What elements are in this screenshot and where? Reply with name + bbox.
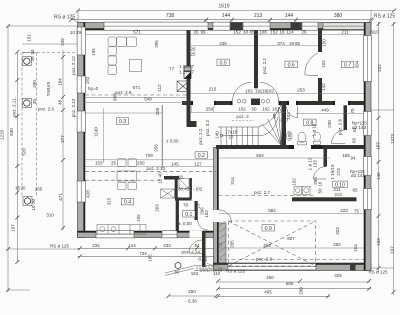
svg-text:poz. 2.6: poz. 2.6 (38, 107, 55, 112)
room label 0.8 (304, 119, 317, 125)
room label 0.3 (116, 118, 129, 124)
svg-text:197: 197 (11, 224, 16, 232)
window left 3 (77, 111, 85, 132)
svg-text:85: 85 (249, 29, 255, 34)
svg-text:685: 685 (286, 281, 294, 286)
svg-text:114: 114 (286, 29, 294, 34)
svg-text:1 ø 19: 1 ø 19 (312, 123, 317, 136)
svg-text:315: 315 (107, 197, 112, 205)
svg-text:520: 520 (22, 148, 27, 156)
svg-text:250: 250 (137, 161, 145, 166)
poz 2.9 dashed (85, 94, 187, 96)
svg-text:193: 193 (376, 238, 381, 246)
svg-text:310: 310 (46, 213, 54, 218)
poz 2.8 dashed (219, 259, 365, 261)
svg-text:162: 162 (191, 271, 199, 276)
svg-text:195: 195 (91, 48, 96, 56)
window top 2 (213, 22, 230, 30)
svg-text:250: 250 (206, 106, 214, 111)
svg-text:223: 223 (340, 208, 348, 213)
door jambs (191, 101, 350, 149)
window right 2 (364, 112, 372, 136)
window left 1 (77, 27, 85, 55)
svg-text:213: 213 (254, 13, 263, 19)
bottom 450/325 line (218, 281, 371, 283)
svg-text:108: 108 (287, 132, 292, 140)
svg-text:48: 48 (58, 99, 63, 105)
wall south of bedrooms (182, 101, 364, 105)
interior walls (164, 30, 364, 267)
door arc hall/garage (219, 210, 232, 223)
living dim line (84, 97, 186, 99)
svg-text:146: 146 (376, 172, 381, 180)
svg-text:1619: 1619 (218, 3, 229, 9)
svg-text:poz. 2.10: poz. 2.10 (147, 166, 166, 171)
svg-text:471: 471 (58, 193, 63, 201)
svg-text:450: 450 (266, 275, 274, 280)
svg-text:205: 205 (154, 40, 159, 48)
svg-text:poz. 2.8: poz. 2.8 (256, 256, 273, 261)
svg-text:144: 144 (222, 13, 231, 19)
svg-text:150: 150 (155, 107, 160, 115)
svg-text:230: 230 (327, 120, 332, 128)
entry porch column (175, 263, 181, 269)
wall stairs/bath (282, 101, 287, 149)
svg-text:532: 532 (377, 64, 382, 72)
svg-text:152: 152 (270, 29, 278, 34)
poz 2.7 dashed (219, 195, 317, 197)
bottom 465 line (218, 295, 330, 297)
svg-text:145: 145 (171, 162, 179, 167)
svg-text:poz. 2.9.: poz. 2.9. (115, 90, 132, 95)
svg-text:75: 75 (354, 208, 360, 213)
right inner dim line (378, 22, 380, 272)
ext t4 (295, 20, 297, 23)
svg-text:549: 549 (144, 97, 152, 102)
room label 0.1 (183, 211, 196, 217)
wall 0.10 left (324, 149, 328, 167)
svg-text:323: 323 (335, 227, 340, 235)
svg-text:162: 162 (262, 107, 270, 112)
svg-text:poz. 2.1: poz. 2.1 (262, 57, 267, 74)
window right 3 (364, 157, 372, 176)
svg-text:807: 807 (287, 236, 295, 241)
nook wall (175, 180, 178, 199)
room label 0.9 (262, 225, 275, 231)
svg-text:144: 144 (285, 13, 294, 19)
RS leader line (207, 264, 226, 270)
opening extension lines (192, 106, 214, 112)
svg-text:12 40: 12 40 (158, 172, 163, 184)
small bath jog wall (175, 198, 192, 201)
svg-text:10: 10 (374, 30, 380, 35)
room label 0.2 (195, 152, 208, 158)
garage bottom exterior wall (214, 263, 372, 271)
svg-text:394: 394 (354, 60, 359, 68)
svg-text:30: 30 (20, 185, 26, 190)
room 0.1 left wall (176, 200, 179, 231)
svg-text:30: 30 (31, 199, 36, 205)
bottom 685 line (218, 288, 371, 290)
left inner dim line (16, 52, 18, 262)
window living long top (104, 22, 208, 30)
kitchen counter (97, 225, 146, 235)
svg-text:449: 449 (321, 108, 329, 113)
svg-text:16: 16 (318, 181, 323, 187)
top exterior wall (78, 23, 371, 30)
svg-text:197: 197 (390, 246, 395, 254)
svg-text:127: 127 (194, 162, 202, 167)
inner face line top wall (85, 29, 364, 31)
svg-text:poz. 3: poz. 3 (236, 114, 249, 119)
svg-text:- 0,36: - 0,36 (185, 298, 197, 303)
svg-text:102: 102 (266, 89, 274, 94)
svg-text:830: 830 (9, 128, 14, 136)
svg-text:142: 142 (321, 83, 326, 91)
dark pier blocks top wall (231, 22, 302, 29)
room label 0.6 (285, 61, 298, 67)
svg-text:734: 734 (139, 251, 147, 256)
left third dim line (62, 50, 64, 230)
fireplace square (177, 81, 189, 92)
extension top-right (370, 11, 372, 23)
svg-text:RS ø 125: RS ø 125 (50, 243, 70, 248)
threshold symbols (237, 100, 241, 104)
chimney box1 (184, 66, 191, 71)
svg-text:RS ø 125: RS ø 125 (374, 14, 395, 20)
RS corner leader top-left (72, 19, 78, 23)
room 0.1 right wall (195, 201, 198, 220)
wall living/0.5 (187, 30, 191, 121)
svg-text:150: 150 (322, 39, 327, 47)
svg-text:18: 18 (272, 107, 278, 112)
svg-text:10: 10 (70, 30, 76, 35)
terrace columns (22, 57, 31, 66)
svg-text:30,43: 30,43 (178, 187, 190, 192)
chimney box2 half-black (184, 72, 191, 79)
svg-text:191: 191 (27, 34, 32, 42)
svg-text:-0,02: -0,02 (197, 257, 208, 262)
svg-text:10: 10 (31, 205, 36, 211)
door gaps (190, 101, 349, 238)
svg-text:poz. 2.6: poz. 2.6 (338, 118, 343, 135)
svg-text:85: 85 (295, 41, 301, 46)
svg-text:0.1: 0.1 (185, 212, 192, 218)
wall 0.5/0.6 (254, 30, 258, 88)
window left 4 (77, 181, 85, 202)
walk line (222, 117, 278, 136)
window right 1 (364, 36, 372, 82)
staircase (218, 104, 284, 146)
svg-text:184: 184 (58, 78, 63, 86)
interior dim lines (84, 35, 364, 249)
vestibule right wall (202, 231, 206, 267)
window kitchen bottom (96, 231, 134, 238)
svg-text:0.5: 0.5 (220, 60, 227, 66)
dim line top total 1619 (78, 10, 394, 12)
svg-text:10: 10 (30, 49, 35, 55)
RS corner leader top-right (371, 19, 375, 23)
svg-text:18: 18 (243, 29, 249, 34)
svg-text:ø2 143: ø2 143 (352, 125, 367, 130)
garage door opening (228, 264, 316, 270)
door arc 0.6/0.7 (305, 53, 318, 76)
svg-text:70: 70 (350, 108, 355, 114)
svg-text:ø2 143: ø2 143 (351, 173, 366, 178)
svg-text:465: 465 (264, 289, 272, 294)
light wall section 0.7 north (323, 23, 364, 30)
svg-text:205: 205 (230, 240, 235, 248)
svg-text:50: 50 (251, 107, 257, 112)
door arc bath-hall (287, 106, 298, 118)
door arc room 0.1 (198, 220, 208, 230)
wall living foot (187, 121, 197, 127)
svg-text:152: 152 (233, 29, 241, 34)
svg-text:144: 144 (128, 243, 136, 248)
svg-text:140: 140 (215, 131, 220, 139)
right ext b (371, 267, 394, 269)
svg-text:RS ø 125: RS ø 125 (369, 270, 389, 275)
furniture (97, 37, 321, 234)
svg-text:50: 50 (318, 188, 323, 194)
svg-text:poz. 2.12: poz. 2.12 (71, 56, 76, 75)
svg-text:30: 30 (30, 56, 35, 62)
left ext c (22, 43, 78, 45)
left ext d (22, 52, 36, 54)
svg-text:94: 94 (194, 243, 200, 248)
svg-text:108: 108 (259, 29, 267, 34)
door arc 0.5 (233, 83, 252, 102)
svg-text:313: 313 (334, 192, 342, 197)
svg-text:poz. 2.12: poz. 2.12 (71, 98, 76, 117)
svg-text:27: 27 (228, 135, 234, 140)
svg-text:0.4: 0.4 (124, 200, 131, 206)
extension top-left (77, 11, 79, 23)
dim line top row2 (71, 19, 371, 21)
svg-text:TARAS: TARAS (46, 82, 51, 97)
svg-text:282: 282 (333, 242, 341, 247)
svg-text:0.6: 0.6 (288, 62, 295, 68)
svg-text:428: 428 (86, 190, 91, 198)
wall bath/right room (344, 101, 348, 130)
svg-text:- (02: - (02 (193, 187, 203, 192)
door arc 0.6 (260, 83, 279, 102)
door arc 0.10 (314, 167, 327, 180)
door arcs (189, 53, 345, 253)
svg-text:RS ø 125: RS ø 125 (54, 15, 75, 21)
svg-text:0.9: 0.9 (265, 226, 272, 232)
door arc bath 0.8/right (332, 130, 346, 144)
svg-text:poz. 2.2.: poz. 2.2. (198, 127, 203, 144)
svg-text:1218: 1218 (0, 129, 5, 140)
wall 0.10 bottom (292, 197, 357, 201)
svg-text:374: 374 (277, 41, 285, 46)
svg-text:153: 153 (95, 161, 103, 166)
svg-text:77: 77 (169, 67, 175, 72)
left outer dim line (7, 26, 9, 292)
room labels (116, 59, 354, 232)
svg-text:215: 215 (209, 87, 217, 92)
left ext b (8, 248, 80, 250)
garage bottom pier block (350, 263, 356, 271)
svg-text:169: 169 (342, 153, 350, 158)
svg-text:0.7: 0.7 (344, 62, 351, 68)
window top 4 (302, 22, 318, 30)
svg-text:65: 65 (352, 188, 358, 193)
svg-text:19: 19 (289, 41, 295, 46)
svg-text:78: 78 (183, 203, 189, 208)
svg-text:0.3: 0.3 (119, 119, 126, 125)
wall below stairs/bath (216, 145, 364, 149)
svg-text:336: 336 (219, 41, 227, 46)
room label 0.7 (341, 61, 354, 67)
winder fan (262, 124, 282, 145)
dining table (117, 171, 137, 181)
svg-text:211: 211 (341, 29, 349, 34)
svg-text:1 19/19: 1 19/19 (330, 164, 335, 180)
svg-text:25: 25 (111, 161, 117, 166)
bottom row1 line (78, 247, 222, 249)
svg-text:99: 99 (200, 29, 206, 34)
ext t3 (269, 20, 271, 23)
svg-text:105: 105 (136, 214, 141, 222)
svg-text:738: 738 (166, 13, 175, 19)
svg-text:192: 192 (85, 76, 90, 84)
entry exterior steps (165, 266, 213, 276)
svg-text:26: 26 (301, 29, 307, 34)
poz 2.10 dashed b (85, 179, 163, 181)
poz 2.10 dashed a (85, 171, 216, 173)
svg-text:67: 67 (217, 243, 223, 248)
windows (77, 22, 371, 270)
svg-text:1373: 1373 (390, 133, 395, 144)
small bath right wall (190, 178, 192, 199)
svg-text:185: 185 (148, 254, 153, 262)
svg-text:poz. 2.11.: poz. 2.11. (12, 97, 17, 116)
svg-text:30: 30 (32, 99, 37, 105)
svg-text:102: 102 (245, 89, 253, 94)
entry door arc (189, 240, 202, 253)
left ext a (8, 25, 78, 27)
svg-text:325: 325 (334, 273, 342, 278)
svg-text:18: 18 (279, 29, 285, 34)
svg-text:200: 200 (299, 287, 304, 295)
svg-text:a. 0,00: a. 0,00 (178, 221, 192, 226)
svg-text:256: 256 (154, 144, 159, 152)
toilet 0.8 (298, 132, 306, 142)
svg-text:571: 571 (133, 85, 141, 90)
washer/dryer 0.10 (294, 186, 302, 195)
svg-text:234: 234 (92, 243, 100, 248)
svg-text:poz. 2.14: poz. 2.14 (182, 249, 201, 254)
svg-text:± 0,00: ± 0,00 (166, 138, 179, 143)
left exterior wall (78, 23, 86, 238)
svg-text:29: 29 (76, 30, 82, 35)
garage left hatched wall strip (219, 223, 227, 263)
bottom 734 line (78, 255, 222, 257)
svg-text:458: 458 (263, 243, 271, 248)
svg-text:380: 380 (334, 13, 343, 19)
svg-text:277: 277 (60, 135, 65, 143)
bottom-left 250 line (169, 295, 217, 297)
svg-text:709: 709 (145, 153, 153, 158)
wall 0.6/0.7 lower (318, 78, 322, 101)
svg-text:265: 265 (35, 187, 43, 192)
svg-text:110: 110 (213, 271, 221, 276)
small bath top wall (164, 176, 179, 180)
svg-text:232: 232 (163, 243, 171, 248)
svg-text:314: 314 (230, 177, 235, 185)
window left 2 (77, 76, 85, 93)
svg-text:102: 102 (238, 107, 246, 112)
svg-text:102: 102 (286, 112, 291, 120)
svg-text:poz. 3.2: poz. 3.2 (205, 119, 210, 136)
toilet2 0.8 (314, 132, 321, 141)
garage left exterior wall (214, 148, 219, 268)
svg-text:263: 263 (154, 204, 159, 212)
svg-text:504: 504 (256, 153, 264, 158)
svg-text:206: 206 (200, 207, 205, 215)
ext t2 (231, 20, 233, 23)
svg-text:102: 102 (321, 60, 326, 68)
svg-text:0.2: 0.2 (198, 153, 205, 159)
svg-text:1 ø 18: 1 ø 18 (170, 174, 183, 179)
right exterior wall (364, 23, 371, 271)
svg-text:183: 183 (376, 142, 381, 150)
left ext e (8, 289, 30, 291)
svg-text:250: 250 (188, 289, 196, 294)
bath counter X (161, 189, 175, 198)
svg-text:1140: 1140 (94, 127, 99, 137)
room label 0.4 (121, 199, 134, 205)
svg-text:1 14/27: 1 14/27 (179, 64, 195, 69)
right outer dim line (393, 22, 395, 295)
svg-text:94: 94 (350, 156, 356, 161)
svg-text:200: 200 (32, 80, 37, 88)
room label 0.5 (217, 59, 230, 65)
svg-text:154: 154 (353, 244, 358, 252)
svg-text:112: 112 (157, 84, 162, 92)
svg-text:238: 238 (60, 38, 65, 46)
svg-text:26: 26 (193, 29, 199, 34)
svg-text:RS ø 125: RS ø 125 (226, 269, 246, 274)
living/hall thin partition line (161, 105, 163, 168)
wall 0.6/0.7 upper (318, 30, 322, 52)
svg-text:66: 66 (352, 138, 357, 144)
svg-text:hp=0: hp=0 (88, 86, 99, 91)
svg-text:571: 571 (133, 29, 141, 34)
window right 4 (364, 189, 372, 210)
svg-text:25: 25 (190, 52, 196, 57)
svg-text:1 27/27: 1 27/27 (179, 70, 195, 75)
svg-text:584: 584 (268, 208, 276, 213)
window bottom small (162, 231, 177, 238)
coffee table (130, 60, 142, 72)
garage dashed X (85, 95, 364, 266)
sink 0.8 (287, 132, 293, 141)
bottom-left exterior wall (78, 231, 219, 238)
svg-text:99: 99 (272, 113, 277, 119)
svg-text:102: 102 (204, 210, 209, 218)
washer nook (179, 179, 189, 189)
ext t1 (205, 20, 207, 23)
svg-text:133: 133 (313, 160, 318, 168)
terrace dashed outline (22, 53, 78, 197)
svg-text:102: 102 (292, 178, 297, 186)
window top 3 (243, 22, 270, 30)
right ext a (371, 109, 394, 111)
svg-text:poz. 2.7: poz. 2.7 (254, 190, 271, 195)
